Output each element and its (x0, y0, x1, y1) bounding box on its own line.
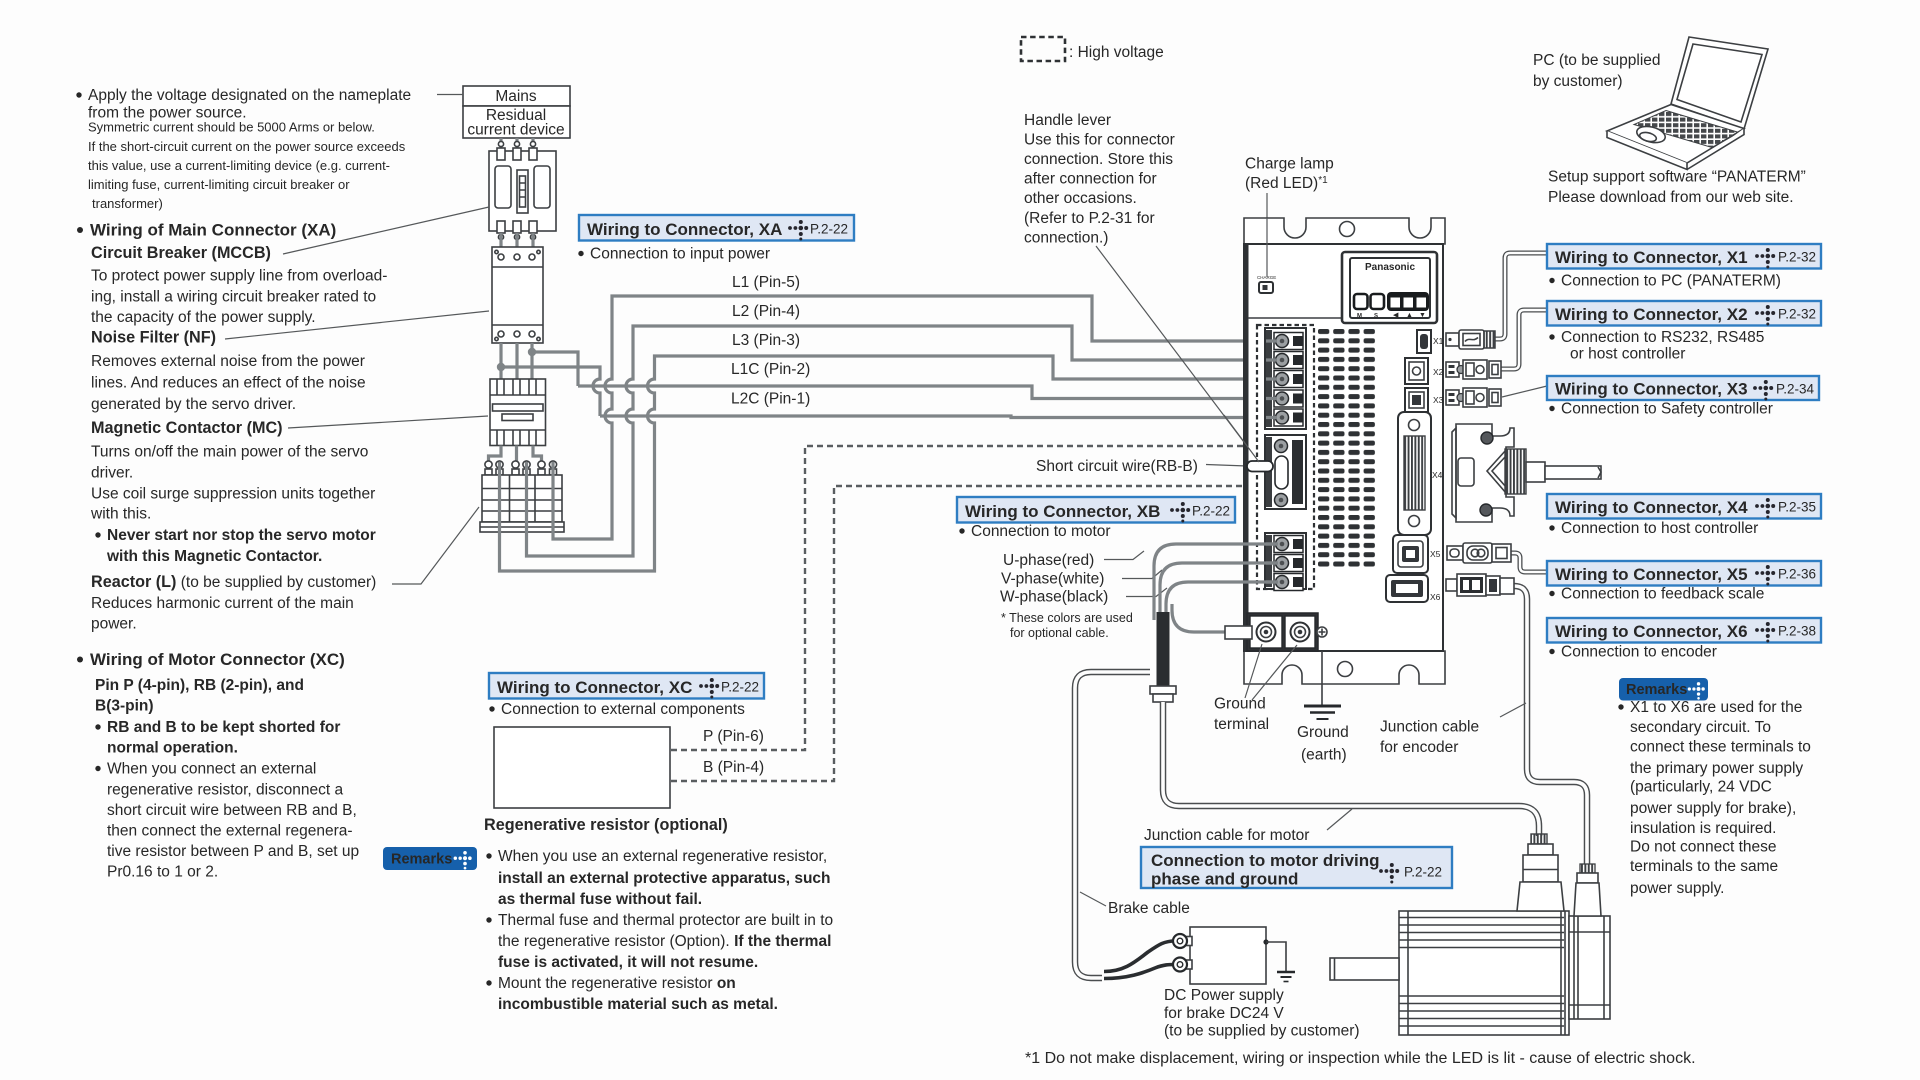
svg-text:Wiring of Motor Connector (XC): Wiring of Motor Connector (XC) (90, 650, 345, 669)
svg-text:P.2-22: P.2-22 (1404, 865, 1442, 880)
svg-text:M: M (1357, 314, 1362, 320)
svg-text:To protect power supply line f: To protect power supply line from overlo… (91, 268, 387, 285)
svg-text:Short circuit wire(RB-B): Short circuit wire(RB-B) (1036, 458, 1198, 475)
svg-text:Junction cable for motor: Junction cable for motor (1144, 827, 1309, 844)
svg-text:Handle lever: Handle lever (1024, 112, 1111, 129)
svg-text:B(3-pin): B(3-pin) (95, 698, 154, 715)
svg-text:power supply for brake),: power supply for brake), (1630, 800, 1796, 817)
svg-text:for brake DC24 V: for brake DC24 V (1164, 1005, 1284, 1022)
svg-text:X3: X3 (1433, 395, 1444, 405)
svg-text:Mains: Mains (495, 88, 537, 105)
svg-text:secondary circuit. To: secondary circuit. To (1630, 719, 1771, 736)
svg-text:Apply the voltage designated o: Apply the voltage designated on the name… (88, 87, 411, 104)
svg-text:regenerative resistor, disconn: regenerative resistor, disconnect a (107, 782, 343, 799)
svg-text:(Red LED)*1: (Red LED)*1 (1245, 175, 1328, 192)
svg-text:Noise Filter (NF): Noise Filter (NF) (91, 329, 216, 347)
svg-text:Wiring to Connector, X3: Wiring to Connector, X3 (1555, 380, 1748, 399)
svg-text:Connection to external compone: Connection to external components (501, 701, 745, 718)
svg-text:* These colors are used: * These colors are used (1001, 611, 1133, 625)
svg-text:Connection to encoder: Connection to encoder (1561, 644, 1717, 661)
svg-text:Junction cable: Junction cable (1380, 719, 1479, 736)
svg-text:L2 (Pin-4): L2 (Pin-4) (732, 303, 800, 320)
svg-text:Never start nor stop the servo: Never start nor stop the servo motor (107, 527, 376, 544)
svg-text:Panasonic: Panasonic (1365, 262, 1415, 273)
svg-text:S: S (1374, 314, 1378, 320)
svg-text:P.2-34: P.2-34 (1776, 382, 1815, 397)
svg-text:for optional cable.: for optional cable. (1010, 626, 1109, 640)
svg-text:Please download from our web s: Please download from our web site. (1548, 189, 1794, 206)
svg-text:fuse is activated, it will not: fuse is activated, it will not resume. (498, 954, 758, 971)
svg-text:lines. And reduces an effect o: lines. And reduces an effect of the nois… (91, 375, 366, 392)
svg-text:X2: X2 (1433, 367, 1444, 377)
svg-text:transformer): transformer) (92, 196, 163, 211)
svg-text:L1C (Pin-2): L1C (Pin-2) (731, 361, 810, 378)
svg-text:Reactor (L) (to be supplied by: Reactor (L) (to be supplied by customer) (91, 573, 376, 591)
svg-text:P.2-22: P.2-22 (1192, 504, 1230, 519)
svg-text:Symmetric current should be 50: Symmetric current should be 5000 Arms or… (88, 120, 375, 135)
svg-text:Wiring to Connector, X6: Wiring to Connector, X6 (1555, 622, 1748, 641)
svg-text:limiting fuse, current-limitin: limiting fuse, current-limiting circuit … (88, 177, 350, 192)
svg-text:P.2-22: P.2-22 (810, 222, 848, 237)
svg-text:the primary power supply: the primary power supply (1630, 760, 1803, 777)
svg-text:the regenerative resistor (Opt: the regenerative resistor (Option). If t… (498, 933, 831, 950)
svg-text:or host controller: or host controller (1570, 346, 1685, 363)
svg-text:Use this for connector: Use this for connector (1024, 132, 1175, 149)
svg-text:▲: ▲ (1406, 312, 1413, 319)
svg-text:(Refer to P.2-31 for: (Refer to P.2-31 for (1024, 210, 1155, 227)
svg-text:P.2-38: P.2-38 (1778, 624, 1816, 639)
svg-text:Connection to input power: Connection to input power (590, 246, 770, 263)
svg-text:P.2-36: P.2-36 (1778, 567, 1816, 582)
svg-text:power.: power. (91, 616, 137, 633)
svg-text:When you connect an external: When you connect an external (107, 761, 316, 778)
svg-text:after connection for: after connection for (1024, 171, 1157, 188)
svg-text:Thermal fuse and thermal prote: Thermal fuse and thermal protector are b… (498, 912, 833, 929)
svg-text:power supply.: power supply. (1630, 880, 1724, 897)
svg-text:as thermal fuse without fail.: as thermal fuse without fail. (498, 891, 702, 908)
svg-text:this value, use a current-limi: this value, use a current-limiting devic… (88, 158, 390, 173)
svg-text:P (Pin-6): P (Pin-6) (703, 728, 764, 745)
svg-text:X1: X1 (1433, 336, 1444, 346)
svg-text:▼: ▼ (1419, 312, 1426, 319)
svg-text:generated by the servo driver.: generated by the servo driver. (91, 396, 296, 413)
svg-text:Do not connect these: Do not connect these (1630, 839, 1777, 856)
svg-text:with this Magnetic Contactor.: with this Magnetic Contactor. (106, 548, 322, 565)
svg-text:connection. Store this: connection. Store this (1024, 151, 1173, 168)
svg-text:P.2-32: P.2-32 (1778, 250, 1816, 265)
svg-text:Regenerative resistor (optiona: Regenerative resistor (optional) (484, 816, 728, 834)
svg-text:Brake cable: Brake cable (1108, 900, 1190, 917)
svg-text:RB and B to be kept shorted fo: RB and B to be kept shorted for (107, 719, 340, 736)
svg-text:◀: ◀ (1393, 312, 1399, 319)
svg-text:Wiring to Connector, X5: Wiring to Connector, X5 (1555, 565, 1748, 584)
svg-text:Circuit Breaker (MCCB): Circuit Breaker (MCCB) (91, 244, 271, 262)
svg-text:Pin P (4-pin), RB (2-pin), and: Pin P (4-pin), RB (2-pin), and (95, 677, 304, 694)
svg-text:Wiring to Connector, XC: Wiring to Connector, XC (497, 678, 692, 697)
svg-text:Charge lamp: Charge lamp (1245, 156, 1334, 173)
svg-text:X5: X5 (1430, 549, 1441, 559)
svg-text:(earth): (earth) (1301, 747, 1347, 764)
svg-text:Connection to Safety controlle: Connection to Safety controller (1561, 401, 1773, 418)
svg-text:Connection to RS232, RS485: Connection to RS232, RS485 (1561, 329, 1764, 346)
svg-text:tive resistor between P and B,: tive resistor between P and B, set up (107, 843, 359, 860)
svg-text:phase and ground: phase and ground (1151, 870, 1298, 889)
svg-text:terminals to the same: terminals to the same (1630, 858, 1778, 875)
svg-text:X1 to X6 are used for the: X1 to X6 are used for the (1630, 699, 1802, 716)
svg-text:driver.: driver. (91, 465, 133, 482)
svg-text:Connection to PC (PANATERM): Connection to PC (PANATERM) (1561, 273, 1781, 290)
svg-text:U-phase(red): U-phase(red) (1003, 552, 1094, 569)
svg-text:Removes external noise from th: Removes external noise from the power (91, 353, 365, 370)
svg-text:incombustible material such as: incombustible material such as metal. (498, 996, 778, 1013)
svg-text:other occasions.: other occasions. (1024, 190, 1137, 207)
svg-text:Connection to host controller: Connection to host controller (1561, 520, 1758, 537)
svg-text:L3 (Pin-3): L3 (Pin-3) (732, 332, 800, 349)
svg-text:(to be supplied by customer): (to be supplied by customer) (1164, 1023, 1360, 1040)
svg-text:the capacity of the power supp: the capacity of the power supply. (91, 309, 316, 326)
svg-text:Wiring to Connector, XB: Wiring to Connector, XB (965, 502, 1160, 521)
svg-text:Connection to motor driving: Connection to motor driving (1151, 851, 1380, 870)
svg-text:by customer): by customer) (1533, 73, 1623, 90)
svg-text:PC (to be supplied: PC (to be supplied (1533, 52, 1661, 69)
svg-text:Wiring to Connector, XA: Wiring to Connector, XA (587, 220, 782, 239)
svg-text:Magnetic Contactor (MC): Magnetic Contactor (MC) (91, 419, 283, 437)
svg-text:Ground: Ground (1214, 696, 1266, 713)
svg-text:Remarks: Remarks (391, 852, 452, 868)
svg-text:L1 (Pin-5): L1 (Pin-5) (732, 274, 800, 291)
svg-text:Wiring to Connector, X1: Wiring to Connector, X1 (1555, 248, 1748, 267)
svg-text:(particularly, 24 VDC: (particularly, 24 VDC (1630, 779, 1772, 796)
svg-text:Pr0.16 to 1 or 2.: Pr0.16 to 1 or 2. (107, 864, 218, 881)
svg-text:normal operation.: normal operation. (107, 740, 238, 757)
svg-text:for encoder: for encoder (1380, 739, 1458, 756)
svg-text:X6: X6 (1430, 592, 1441, 602)
svg-text:: High voltage: : High voltage (1069, 44, 1164, 61)
svg-text:current device: current device (467, 122, 564, 139)
svg-text:Ground: Ground (1297, 724, 1349, 741)
svg-text:Setup support software “PANATE: Setup support software “PANATERM” (1548, 169, 1806, 186)
svg-text:P.2-32: P.2-32 (1778, 307, 1816, 322)
svg-text:Wiring of Main Connector (XA): Wiring of Main Connector (XA) (90, 221, 336, 240)
svg-text:L2C (Pin-1): L2C (Pin-1) (731, 391, 810, 408)
svg-text:*1 Do not make displacement, w: *1 Do not make displacement, wiring or i… (1025, 1050, 1696, 1067)
svg-text:Turns on/off the main power of: Turns on/off the main power of the servo (91, 444, 368, 461)
svg-text:Remarks: Remarks (1626, 682, 1687, 698)
svg-text:B (Pin-4): B (Pin-4) (703, 759, 764, 776)
svg-text:insulation is required.: insulation is required. (1630, 820, 1776, 837)
svg-text:When you use an external regen: When you use an external regenerative re… (498, 848, 827, 865)
svg-text:Connection to feedback scale: Connection to feedback scale (1561, 586, 1764, 603)
svg-text:Wiring to Connector, X4: Wiring to Connector, X4 (1555, 498, 1748, 517)
svg-text:V-phase(white): V-phase(white) (1001, 571, 1104, 588)
svg-text:P.2-22: P.2-22 (721, 680, 759, 695)
svg-text:Reduces harmonic current of th: Reduces harmonic current of the main (91, 595, 354, 612)
svg-text:ing, install a wiring circuit: ing, install a wiring circuit breaker ra… (91, 289, 376, 306)
svg-text:Connection to motor: Connection to motor (971, 523, 1111, 540)
svg-text:Wiring to Connector, X2: Wiring to Connector, X2 (1555, 305, 1748, 324)
svg-text:Mount the regenerative resisto: Mount the regenerative resistor on (498, 975, 736, 992)
svg-text:X4: X4 (1432, 470, 1443, 480)
svg-text:If the short-circuit current o: If the short-circuit current on the powe… (88, 139, 406, 154)
svg-text:DC Power supply: DC Power supply (1164, 987, 1284, 1004)
svg-text:then connect the external rege: then connect the external regenera- (107, 823, 353, 840)
svg-text:connection.): connection.) (1024, 230, 1108, 247)
svg-text:short circuit wire between RB: short circuit wire between RB and B, (107, 802, 357, 819)
svg-text:P.2-35: P.2-35 (1778, 500, 1816, 515)
svg-text:connect these terminals to: connect these terminals to (1630, 739, 1811, 756)
svg-text:install an external protective: install an external protective apparatus… (498, 870, 831, 887)
svg-text:Use coil surge suppression uni: Use coil surge suppression units togethe… (91, 486, 375, 503)
svg-text:terminal: terminal (1214, 716, 1269, 733)
svg-text:with this.: with this. (90, 506, 151, 523)
svg-text:W-phase(black): W-phase(black) (1000, 589, 1108, 606)
